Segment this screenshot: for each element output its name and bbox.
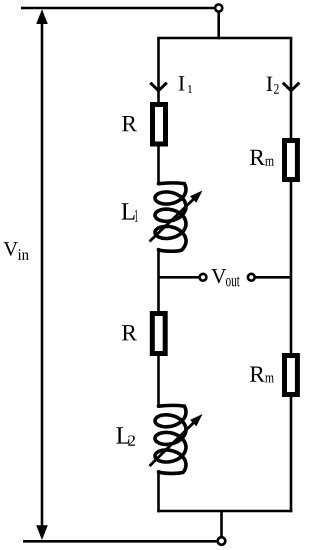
- inductor L2 (variable, coil): [155, 405, 186, 473]
- wire Vout to right branch: [255, 276, 291, 279]
- wire bottom main: [23, 540, 217, 543]
- arrowhead up: [36, 9, 48, 24]
- label Vin: [4, 242, 29, 260]
- wire top rail: [21, 7, 214, 10]
- wire terminal to upper rail: [217, 12, 220, 40]
- wire bottom rail to terminal: [220, 511, 223, 536]
- label Vout: [211, 269, 239, 286]
- Vin measure line with arrowheads: [41, 20, 44, 530]
- arrowhead down: [36, 525, 48, 540]
- label L2: [116, 427, 135, 445]
- current arrow I2 (chevron): [283, 83, 300, 91]
- resistor R (lower left): [152, 314, 165, 354]
- label Rm (upper): [250, 150, 274, 166]
- terminal bottom (open circle): [218, 537, 226, 545]
- label R (lower): [122, 325, 137, 340]
- terminal top (open circle): [215, 4, 222, 11]
- terminal Vout left (open circle): [200, 274, 207, 281]
- label L1: [122, 203, 138, 221]
- inductor L1 (variable, coil): [155, 183, 186, 251]
- resistor Rm (lower right): [285, 356, 298, 395]
- wire right branch top: [290, 38, 293, 138]
- variable arrow of L1: [150, 191, 203, 242]
- label R (upper): [122, 116, 137, 131]
- wire L2 to bottom rail: [157, 472, 160, 512]
- variable arrow of L2: [150, 414, 203, 466]
- wire Vout from left branch: [159, 276, 200, 279]
- wire Rm1 to Rm2 (through Vout tap): [290, 182, 293, 353]
- wire right branch bottom: [290, 394, 293, 512]
- wire R2 to L2: [157, 356, 160, 407]
- label I2: [267, 77, 279, 94]
- terminal Vout right (open circle): [248, 274, 255, 281]
- label Rm (lower): [250, 367, 274, 383]
- resistor Rm (upper right): [285, 141, 298, 180]
- wire upper rail: [157, 37, 292, 40]
- resistor R (upper left): [153, 105, 166, 145]
- wire bottom rail: [157, 510, 292, 513]
- label I1: [179, 76, 192, 93]
- wire left branch top: [157, 38, 160, 102]
- current arrow I1 (chevron): [150, 83, 167, 91]
- wire L1 to R2 (through Vout junction): [157, 250, 160, 311]
- wire R1 to L1: [157, 147, 160, 186]
